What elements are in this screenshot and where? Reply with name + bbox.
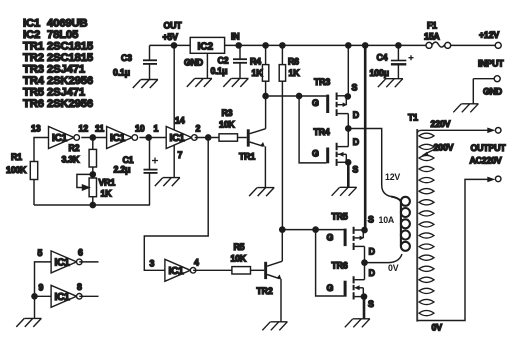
svg-text:0.1μ: 0.1μ bbox=[113, 68, 130, 78]
ground C4 bbox=[378, 79, 403, 88]
transformer T1 secondary winding bbox=[419, 133, 434, 316]
wire R1 input to gate A bbox=[34, 138, 49, 162]
svg-text:2SJ471: 2SJ471 bbox=[47, 64, 85, 76]
ground TR4 bbox=[332, 187, 357, 196]
transistor Q4 TR4 2SK2956 bbox=[312, 127, 359, 175]
resistor R5 10K bbox=[231, 242, 265, 274]
wire drain node to transformer 0V tap bbox=[365, 254, 403, 263]
capacitor C2 bbox=[211, 45, 248, 78]
svg-text:TR3: TR3 bbox=[23, 64, 44, 76]
svg-text:11: 11 bbox=[95, 124, 104, 134]
wire pin2 to gate D input bbox=[144, 138, 208, 271]
op-amp U1 inverter B pins 11-10 bbox=[95, 124, 145, 149]
svg-text:1K: 1K bbox=[101, 189, 113, 199]
resistor R6 bbox=[279, 43, 300, 230]
svg-text:10: 10 bbox=[135, 124, 145, 134]
svg-text:TR4: TR4 bbox=[23, 75, 45, 87]
node gate bracket TR5 bbox=[313, 227, 318, 232]
svg-text:78L05: 78L05 bbox=[47, 29, 78, 41]
resistor R4 bbox=[250, 43, 269, 96]
svg-text:IC1: IC1 bbox=[170, 133, 186, 144]
svg-text:TR6: TR6 bbox=[23, 98, 44, 110]
node R2 VR1 junction bbox=[90, 172, 95, 177]
wire gate drive TR5 TR6 bbox=[282, 229, 315, 231]
svg-text:R5: R5 bbox=[234, 242, 245, 252]
svg-text:3: 3 bbox=[150, 258, 155, 268]
svg-text:TR5: TR5 bbox=[23, 87, 44, 99]
svg-text:T1: T1 bbox=[408, 113, 418, 123]
svg-text:GND: GND bbox=[184, 57, 203, 67]
svg-text:GND: GND bbox=[483, 87, 502, 97]
svg-text:2SC1815: 2SC1815 bbox=[47, 41, 93, 53]
svg-text:IC1: IC1 bbox=[110, 133, 126, 144]
fuse F1 15A bbox=[424, 21, 451, 49]
svg-text:8: 8 bbox=[77, 282, 82, 292]
svg-text:1: 1 bbox=[154, 124, 159, 134]
svg-text:3.3K: 3.3K bbox=[62, 155, 81, 165]
ground inverter inputs bbox=[16, 318, 41, 327]
transistor Q6 TR6 2SK2956 bbox=[327, 261, 375, 310]
ground TR1 bbox=[249, 188, 274, 197]
wire TR3 source to rail bbox=[347, 45, 349, 96]
wire gate drive TR3 TR4 bbox=[266, 95, 300, 97]
resistor R2 3.3K bbox=[62, 138, 97, 175]
ground TR6 bbox=[345, 319, 370, 328]
op-amp U1 IC2 78L05 regulator box bbox=[190, 37, 224, 53]
svg-text:TR5: TR5 bbox=[332, 212, 348, 222]
svg-text:0V: 0V bbox=[388, 263, 399, 273]
svg-text:IC1: IC1 bbox=[55, 292, 71, 303]
op-amp U1 inverter A pins 13-12 bbox=[31, 124, 88, 149]
svg-text:D: D bbox=[369, 247, 375, 257]
svg-text:7: 7 bbox=[178, 150, 183, 160]
svg-text:200V: 200V bbox=[434, 142, 454, 152]
transformer T1 core bbox=[416, 129, 418, 322]
ground C2 bbox=[223, 78, 248, 87]
svg-text:+5V: +5V bbox=[163, 32, 179, 42]
node +12V input terminal bbox=[478, 30, 504, 69]
svg-text:R4: R4 bbox=[250, 56, 261, 66]
wire unused inputs to ground bbox=[34, 296, 36, 318]
svg-text:100μ: 100μ bbox=[370, 68, 389, 78]
svg-text:D: D bbox=[353, 137, 359, 147]
transistor Q2 TR2 bbox=[257, 230, 283, 322]
svg-text:IC1: IC1 bbox=[52, 133, 68, 144]
svg-text:1K: 1K bbox=[289, 68, 301, 78]
resistor R1 100K bbox=[6, 152, 38, 205]
svg-text:G: G bbox=[312, 149, 319, 159]
node OUTPUT labels bbox=[470, 143, 507, 166]
svg-text:IC1: IC1 bbox=[23, 18, 40, 30]
wire 12V bus bbox=[364, 45, 367, 230]
wire gate A out to gate B in bbox=[81, 137, 106, 139]
svg-text:IC2: IC2 bbox=[198, 42, 214, 53]
wire TR6 source to ground bbox=[363, 297, 366, 319]
wire TR3 TR4 gate bracket bbox=[299, 96, 326, 163]
wire TR5 TR6 gate bracket bbox=[316, 230, 344, 296]
svg-text:S: S bbox=[352, 165, 358, 175]
svg-text:9: 9 bbox=[39, 283, 44, 293]
svg-text:14: 14 bbox=[175, 116, 185, 126]
svg-text:10K: 10K bbox=[219, 120, 235, 130]
transformer T1 primary winding bbox=[379, 172, 410, 273]
op-amp U1 inverter D pins 3-4 bbox=[150, 258, 200, 282]
svg-text:TR1: TR1 bbox=[239, 152, 255, 162]
svg-text:C4: C4 bbox=[377, 52, 388, 62]
node 200V tap arrow bbox=[422, 142, 454, 155]
node R4 TR1 collector bbox=[263, 93, 268, 98]
node VR1 bottom bbox=[90, 202, 95, 207]
wire drain node to transformer 12V tap bbox=[348, 129, 391, 197]
transistor Q1 TR1 bbox=[239, 96, 266, 188]
node C1 top bbox=[146, 124, 158, 141]
node TR5 TR6 drains bbox=[362, 260, 367, 265]
svg-text:TR3: TR3 bbox=[314, 77, 330, 87]
svg-text:TR2: TR2 bbox=[257, 286, 273, 296]
node GND input terminal bbox=[473, 76, 502, 104]
ground C3 bbox=[133, 80, 158, 89]
svg-text:R2: R2 bbox=[69, 143, 80, 153]
svg-text:R3: R3 bbox=[222, 108, 233, 118]
wire secondary 220V to output terminal bbox=[417, 119, 501, 133]
resistor R3 10K bbox=[219, 108, 247, 141]
svg-text:IC1: IC1 bbox=[55, 257, 71, 268]
node unused inputs bbox=[32, 294, 37, 299]
svg-text:OUT: OUT bbox=[164, 21, 183, 31]
node +5V bbox=[163, 21, 183, 49]
wire pin7 to ground bbox=[173, 145, 175, 178]
svg-text:INPUT: INPUT bbox=[478, 59, 504, 69]
svg-text:0.1μ: 0.1μ bbox=[211, 66, 228, 76]
svg-text:2SJ471: 2SJ471 bbox=[47, 87, 85, 99]
wire top rail middle bbox=[225, 44, 426, 46]
svg-text:R6: R6 bbox=[288, 56, 299, 66]
wire IC2 GND pin bbox=[206, 53, 208, 78]
svg-text:5: 5 bbox=[38, 248, 43, 258]
ground input GND bbox=[453, 104, 478, 113]
wire bottom feedback rail bbox=[34, 204, 150, 206]
node IN bbox=[231, 32, 241, 49]
node pin2 bbox=[206, 135, 211, 140]
svg-text:15A: 15A bbox=[424, 32, 440, 42]
ground IC2 bbox=[184, 57, 212, 87]
svg-text:C2: C2 bbox=[218, 56, 229, 66]
svg-text:S: S bbox=[368, 215, 374, 225]
svg-text:4069UB: 4069UB bbox=[47, 18, 87, 30]
svg-text:S: S bbox=[352, 83, 358, 93]
svg-text:TR6: TR6 bbox=[332, 261, 348, 271]
svg-text:10K: 10K bbox=[231, 254, 247, 264]
svg-text:G: G bbox=[312, 98, 319, 108]
wire gate B out to gate C in bbox=[139, 137, 166, 139]
wire gate C out bbox=[195, 137, 219, 139]
wire secondary 0V to output terminal bbox=[417, 176, 501, 332]
node TR3 source rail bbox=[346, 43, 351, 48]
svg-text:C3: C3 bbox=[121, 53, 132, 63]
ground TR2 bbox=[262, 322, 287, 331]
wire top +5V rail left bbox=[150, 44, 191, 46]
node 12V bus rail bbox=[363, 43, 368, 48]
svg-text:VR1: VR1 bbox=[99, 178, 116, 188]
svg-text:C1: C1 bbox=[123, 155, 134, 165]
wire gate D out to R5 bbox=[193, 269, 232, 271]
svg-text:TR2: TR2 bbox=[23, 52, 44, 64]
svg-text:R1: R1 bbox=[11, 152, 22, 162]
capacitor C1 2.2u bbox=[114, 138, 159, 206]
svg-text:+12V: +12V bbox=[479, 30, 499, 40]
svg-text:D: D bbox=[369, 268, 375, 278]
svg-text:12: 12 bbox=[79, 124, 89, 134]
svg-text:TR4: TR4 bbox=[314, 127, 330, 137]
component list table bbox=[23, 18, 93, 111]
wire TR4 source to ground bbox=[347, 162, 350, 187]
svg-text:D: D bbox=[353, 110, 359, 120]
svg-text:2SK2956: 2SK2956 bbox=[47, 75, 93, 87]
svg-text:IN: IN bbox=[231, 32, 239, 42]
svg-text:2.2μ: 2.2μ bbox=[114, 165, 131, 175]
potentiometer VR1 1K bbox=[77, 174, 115, 205]
svg-text:2: 2 bbox=[196, 124, 201, 134]
ground IC1 pin7 bbox=[155, 178, 180, 187]
svg-text:220V: 220V bbox=[431, 119, 451, 129]
op-amp U1 inverter E pins 5-6 bbox=[35, 248, 99, 297]
capacitor C4 bbox=[370, 43, 414, 79]
svg-text:0V: 0V bbox=[432, 323, 443, 333]
capacitor C3 bbox=[113, 45, 157, 79]
node TR3 TR4 drains bbox=[346, 126, 351, 131]
op-amp U1 inverter C pins 1-2 buffer bbox=[166, 116, 200, 161]
svg-text:13: 13 bbox=[31, 124, 41, 134]
svg-text:10A: 10A bbox=[379, 215, 395, 225]
transistor Q3 TR3 2SJ471 bbox=[299, 77, 359, 129]
node gate bracket TR3 bbox=[297, 93, 302, 98]
svg-text:G: G bbox=[327, 283, 334, 293]
svg-text:12V: 12V bbox=[385, 172, 400, 182]
svg-text:OUTPUT: OUTPUT bbox=[471, 143, 507, 153]
wire pin14 to +5V bbox=[173, 45, 175, 130]
svg-text:G: G bbox=[327, 233, 334, 243]
svg-text:4: 4 bbox=[194, 258, 199, 268]
svg-text:IC2: IC2 bbox=[23, 29, 40, 41]
op-amp U1 inverter F pins 9-8 bbox=[35, 282, 99, 308]
svg-text:6: 6 bbox=[78, 248, 83, 258]
node R6 TR2 collector bbox=[280, 227, 285, 232]
svg-text:100K: 100K bbox=[6, 165, 27, 175]
svg-text:1K: 1K bbox=[252, 68, 264, 78]
svg-text:AC220V: AC220V bbox=[470, 156, 502, 166]
svg-text:S: S bbox=[368, 299, 374, 309]
svg-text:2SK2956: 2SK2956 bbox=[47, 98, 93, 110]
svg-text:F1: F1 bbox=[427, 21, 437, 31]
svg-text:IC1: IC1 bbox=[169, 266, 185, 277]
transistor Q5 TR5 2SJ471 bbox=[316, 212, 375, 263]
node osc A bbox=[90, 135, 95, 140]
svg-text:TR1: TR1 bbox=[23, 41, 44, 53]
wire rail fuse to +12V terminal bbox=[451, 44, 496, 46]
svg-text:2SC1815: 2SC1815 bbox=[47, 52, 93, 64]
